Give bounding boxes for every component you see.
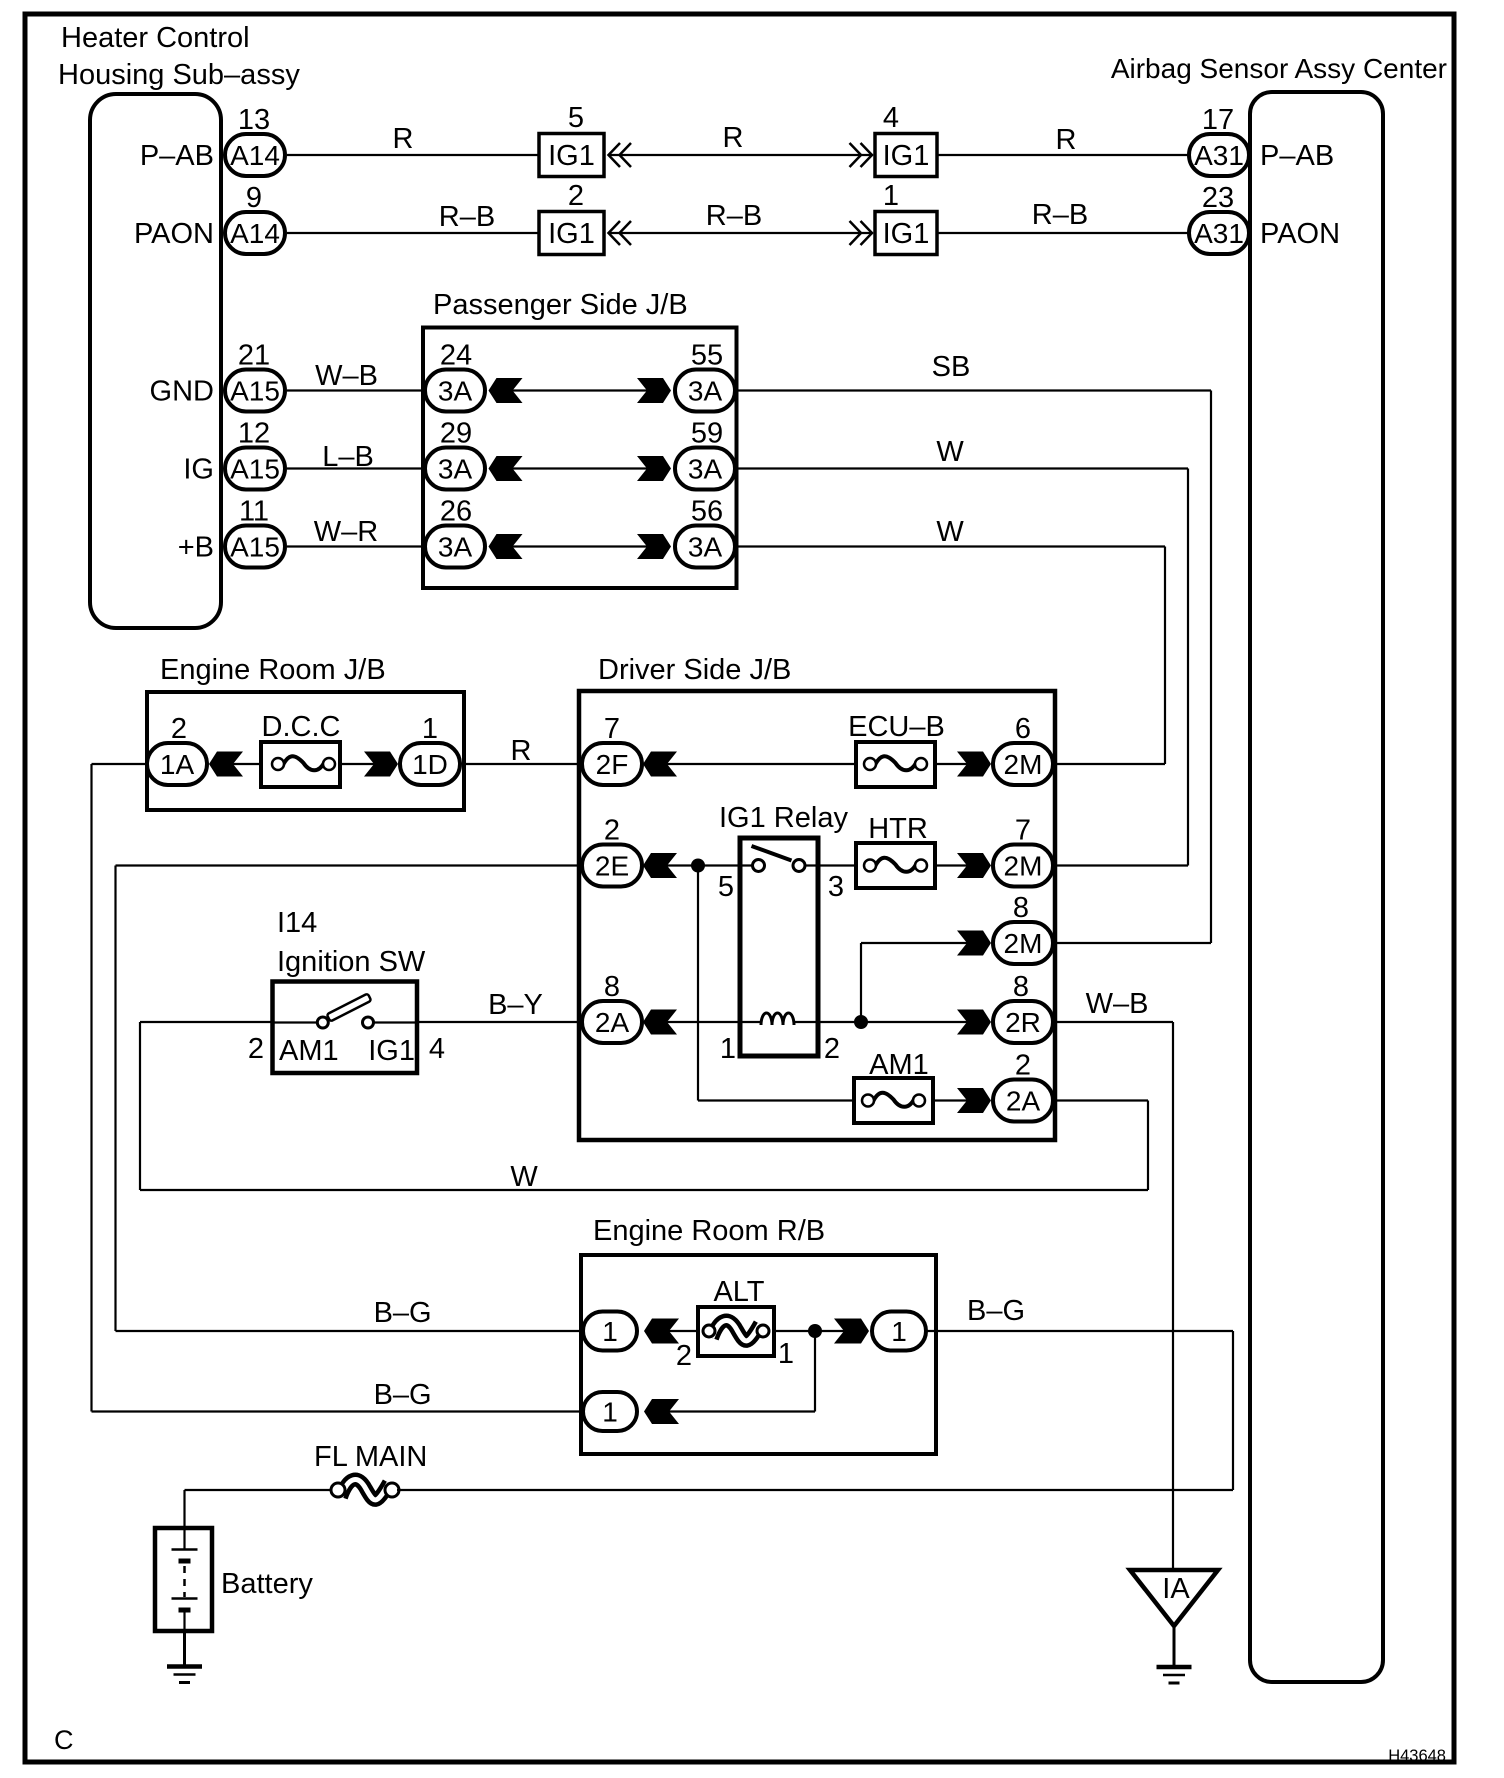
- svg-text:C: C: [54, 1725, 74, 1755]
- svg-text:Engine Room R/B: Engine Room R/B: [593, 1215, 825, 1247]
- wire B-G lower into R/B: [92, 1379, 585, 1412]
- component Passenger Side J/B box: [423, 289, 737, 588]
- component Airbag Sensor Assy Center: [1111, 53, 1447, 1682]
- wire 1-upper to ALT: [669, 1330, 698, 1332]
- fuse HTR: [856, 813, 935, 888]
- ignition contact IG1: [363, 1017, 418, 1067]
- connector A15 pin 21 (GND): [150, 340, 285, 412]
- fusible link FL MAIN: [314, 1441, 427, 1500]
- wire B-Y ignition to 2A-8: [417, 989, 580, 1065]
- inline connector chevrons right P-AB: [850, 143, 873, 167]
- svg-text:5: 5: [568, 102, 584, 134]
- svg-text:IG1: IG1: [883, 218, 930, 250]
- svg-text:ALT: ALT: [713, 1276, 764, 1308]
- svg-text:I14: I14: [277, 907, 317, 939]
- connector A31 pin 23 (PAON): [1189, 182, 1340, 254]
- wire battery positive stem: [183, 1490, 185, 1528]
- arrow into 2M-8: [957, 931, 991, 956]
- svg-text:3A: 3A: [438, 376, 473, 407]
- svg-text:3A: 3A: [688, 532, 723, 563]
- svg-text:B–G: B–G: [374, 1297, 432, 1329]
- svg-text:PAON: PAON: [134, 218, 214, 250]
- arrow into 2R: [957, 1010, 991, 1035]
- svg-text:2M: 2M: [1004, 749, 1043, 780]
- svg-text:W: W: [510, 1161, 538, 1193]
- svg-text:IA: IA: [1162, 1573, 1190, 1605]
- svg-text:8: 8: [1013, 971, 1029, 1003]
- svg-text:Engine Room J/B: Engine Room J/B: [160, 654, 386, 686]
- connector 2M pin 7: [993, 815, 1053, 887]
- wire SB from 3A-55 to 2M-8: [737, 351, 1212, 943]
- svg-text:SB: SB: [932, 351, 971, 383]
- wire IG row (L-B): [287, 441, 425, 473]
- svg-text:R: R: [393, 123, 414, 155]
- svg-text:A15: A15: [230, 532, 280, 563]
- svg-text:A31: A31: [1194, 218, 1244, 249]
- svg-text:A15: A15: [230, 454, 280, 485]
- connector 3A pin 24: [425, 340, 485, 412]
- wire into ignition AM1 side: [140, 1022, 273, 1065]
- wire W from 3A-59 to 2M-7: [737, 436, 1189, 866]
- component Heater Control Housing Sub-assy: [58, 22, 300, 628]
- wire 2A-8 to relay coil pin 1: [667, 1021, 761, 1023]
- svg-text:Airbag Sensor Assy Center: Airbag Sensor Assy Center: [1111, 53, 1447, 84]
- svg-text:29: 29: [440, 418, 472, 450]
- svg-text:24: 24: [440, 340, 472, 372]
- relay IG1 Relay box: [719, 802, 848, 1056]
- connector 3A pin 59: [675, 418, 735, 490]
- svg-text:3A: 3A: [688, 454, 723, 485]
- svg-text:1D: 1D: [412, 749, 448, 780]
- ignition contact AM1: [273, 1017, 339, 1067]
- svg-text:R–B: R–B: [439, 201, 495, 233]
- battery: [155, 1528, 313, 1631]
- svg-text:1: 1: [602, 1316, 618, 1347]
- svg-text:W–R: W–R: [314, 516, 378, 548]
- inline connector chevrons left P-AB: [609, 143, 632, 167]
- svg-text:59: 59: [691, 418, 723, 450]
- svg-text:Driver Side J/B: Driver Side J/B: [598, 654, 791, 686]
- junction connector IG1 pin 1: [875, 180, 937, 255]
- svg-text:2E: 2E: [595, 851, 629, 882]
- wire from 2E node down to AM1: [698, 866, 854, 1101]
- svg-text:Passenger Side J/B: Passenger Side J/B: [433, 289, 688, 321]
- svg-text:1: 1: [891, 1316, 907, 1347]
- wire 2M-8 to right riser: [1053, 942, 1211, 944]
- svg-text:2: 2: [604, 815, 620, 847]
- connector 1 right: [872, 1312, 926, 1351]
- wire from node B to 1A: [92, 763, 148, 765]
- arrow into 1D: [364, 752, 398, 777]
- inline connector chevrons right PAON: [850, 221, 873, 245]
- svg-text:1: 1: [883, 180, 899, 212]
- connector 2E pin 2: [582, 815, 642, 887]
- fuse AM1: [854, 1049, 933, 1123]
- drawing number H43648: [1388, 1747, 1446, 1765]
- svg-text:R: R: [511, 735, 532, 767]
- svg-text:23: 23: [1202, 182, 1234, 214]
- svg-text:B–G: B–G: [967, 1295, 1025, 1327]
- connector 1A pin 2: [147, 713, 207, 785]
- arrow into 3A pin 24: [489, 378, 523, 403]
- arrow into 2F: [643, 752, 677, 777]
- connector 2M pin 8: [993, 892, 1053, 964]
- svg-text:Heater Control: Heater Control: [61, 22, 250, 54]
- svg-text:2: 2: [1015, 1050, 1031, 1082]
- wire +B row (W-R): [287, 516, 425, 548]
- svg-text:56: 56: [691, 496, 723, 528]
- svg-text:3A: 3A: [438, 532, 473, 563]
- wire battery to FL MAIN: [185, 1489, 334, 1491]
- svg-text:13: 13: [238, 104, 270, 136]
- svg-text:7: 7: [1015, 815, 1031, 847]
- svg-text:H43648: H43648: [1388, 1747, 1446, 1765]
- svg-text:1: 1: [778, 1338, 794, 1370]
- wire riser to 2M-8: [861, 943, 967, 1022]
- svg-text:W–B: W–B: [1086, 988, 1149, 1020]
- svg-text:L–B: L–B: [322, 441, 374, 473]
- component Driver Side J/B box: [579, 654, 1055, 1140]
- wire HTR to 2M-7: [935, 864, 967, 866]
- svg-text:A14: A14: [230, 218, 280, 249]
- wire node A riser (2E row down to upper B-G): [114, 866, 116, 1332]
- svg-text:R: R: [1056, 124, 1077, 156]
- svg-text:2A: 2A: [1006, 1086, 1041, 1117]
- svg-text:GND: GND: [150, 376, 214, 408]
- svg-text:4: 4: [429, 1033, 445, 1065]
- wire inside J/B row GND: [513, 389, 648, 391]
- svg-text:2: 2: [248, 1033, 264, 1065]
- node junction at 2E branch: [691, 859, 705, 873]
- svg-text:W–B: W–B: [315, 360, 378, 392]
- connector A31 pin 17 (P-AB): [1189, 104, 1334, 176]
- svg-text:2: 2: [568, 180, 584, 212]
- wire FL MAIN to riser: [397, 1489, 1233, 1491]
- arrow into 2A-8: [643, 1010, 677, 1035]
- svg-text:1A: 1A: [160, 749, 195, 780]
- svg-text:R–B: R–B: [706, 200, 762, 232]
- wire PAON row left (R-B): [287, 201, 539, 233]
- fuse ECU-B: [848, 711, 945, 787]
- wire 2M-7 to right riser: [1053, 864, 1188, 866]
- connector 2A pin 8: [582, 971, 642, 1043]
- svg-text:IG1: IG1: [368, 1035, 415, 1067]
- wire relay coil pin 2 to 2R: [794, 1021, 967, 1023]
- junction connector IG1 pin 4: [875, 102, 937, 177]
- arrow into 1A: [209, 752, 243, 777]
- svg-text:8: 8: [1013, 892, 1029, 924]
- connector 2A pin 2: [993, 1050, 1053, 1122]
- svg-text:Battery: Battery: [221, 1568, 313, 1600]
- wire R from 1D to 2F: [464, 735, 580, 767]
- connector 2F pin 7: [582, 713, 642, 785]
- svg-text:3A: 3A: [688, 376, 723, 407]
- svg-text:HTR: HTR: [868, 813, 928, 845]
- arrow into 3A pin 55: [637, 378, 671, 403]
- svg-text:B–G: B–G: [374, 1379, 432, 1411]
- svg-text:7: 7: [604, 713, 620, 745]
- svg-text:2A: 2A: [595, 1007, 630, 1038]
- component Engine Room J/B box: [147, 654, 464, 810]
- relay switch blade: [752, 846, 792, 861]
- arrow into 2M-6: [957, 752, 991, 777]
- wire W from 3A-56 to 2M-6: [737, 516, 1166, 764]
- junction connector IG1 pin 2: [539, 180, 604, 255]
- svg-text:11: 11: [239, 496, 269, 528]
- svg-text:2: 2: [676, 1340, 692, 1372]
- wire P-AB row middle (R): [609, 122, 874, 155]
- svg-text:2: 2: [171, 713, 187, 745]
- wire AM1 to 2A-2: [933, 1099, 967, 1101]
- svg-text:1: 1: [602, 1397, 618, 1428]
- svg-text:Housing Sub–assy: Housing Sub–assy: [58, 59, 300, 91]
- svg-text:W: W: [936, 436, 964, 468]
- wire P-AB row left (R): [287, 123, 539, 155]
- relay contact pin 3: [793, 860, 844, 904]
- inline connector chevrons left PAON: [609, 221, 632, 245]
- connector 3A pin 56: [675, 496, 735, 568]
- svg-text:IG1: IG1: [548, 140, 595, 172]
- relay coil: [720, 1013, 840, 1065]
- svg-text:9: 9: [246, 182, 262, 214]
- battery ground: [167, 1631, 202, 1683]
- wire PAON row right (R-B): [937, 199, 1189, 233]
- svg-text:IG1: IG1: [548, 218, 595, 250]
- fuse D.C.C: [261, 711, 340, 787]
- svg-text:Ignition SW: Ignition SW: [277, 946, 426, 978]
- svg-text:FL MAIN: FL MAIN: [314, 1441, 427, 1473]
- connector A15 pin 12 (IG): [183, 418, 285, 490]
- svg-text:6: 6: [1015, 713, 1031, 745]
- connector 3A pin 29: [425, 418, 485, 490]
- svg-text:+B: +B: [178, 532, 214, 564]
- wire W-B from 2R to ground IA: [1053, 988, 1173, 1570]
- wire 2M-6 to right riser: [1053, 763, 1165, 765]
- wire PAON row middle (R-B): [609, 200, 874, 233]
- wire 2F to ECU-B fuse: [667, 763, 856, 765]
- svg-text:IG1 Relay: IG1 Relay: [719, 802, 848, 834]
- svg-text:W: W: [936, 516, 964, 548]
- svg-text:2: 2: [824, 1033, 840, 1065]
- svg-text:5: 5: [718, 871, 734, 903]
- svg-text:R: R: [723, 122, 744, 154]
- svg-text:B–Y: B–Y: [488, 989, 543, 1021]
- arrow into 3A pin 59: [637, 456, 671, 481]
- relay contact pin 5: [718, 860, 765, 904]
- ignition switch blade: [327, 993, 372, 1021]
- svg-text:1: 1: [422, 713, 438, 745]
- wire B-G upper into R/B: [116, 1297, 585, 1331]
- component Engine Room R/B box: [581, 1215, 936, 1454]
- junction connector IG1 pin 5: [539, 102, 604, 177]
- svg-text:AM1: AM1: [279, 1035, 339, 1067]
- svg-text:2M: 2M: [1004, 851, 1043, 882]
- svg-text:21: 21: [238, 340, 270, 372]
- svg-text:D.C.C: D.C.C: [262, 711, 341, 743]
- arrow into 2M-7: [957, 853, 991, 878]
- page marker C: [54, 1725, 74, 1755]
- arrow into 2E: [643, 853, 677, 878]
- connector 3A pin 55: [675, 340, 735, 412]
- svg-text:12: 12: [238, 418, 270, 450]
- connector 2M pin 6: [993, 713, 1053, 785]
- svg-text:A31: A31: [1194, 140, 1244, 171]
- wire inside J/B row IG: [513, 467, 648, 469]
- arrow into 3A pin 29: [489, 456, 523, 481]
- arrow into connector 1 lower: [644, 1399, 679, 1424]
- svg-text:A14: A14: [230, 140, 280, 171]
- svg-text:55: 55: [691, 340, 723, 372]
- svg-text:R–B: R–B: [1032, 199, 1088, 231]
- svg-text:PAON: PAON: [1260, 218, 1340, 250]
- wire relay contact 3 to HTR: [805, 864, 856, 866]
- connector 1D pin 1: [400, 713, 460, 785]
- ground point IA: [1130, 1570, 1218, 1626]
- connector 3A pin 26: [425, 496, 485, 568]
- svg-text:IG: IG: [183, 454, 214, 486]
- svg-text:P–AB: P–AB: [1260, 140, 1334, 172]
- svg-text:IG1: IG1: [883, 140, 930, 172]
- svg-text:2F: 2F: [596, 749, 629, 780]
- connector 1 lower: [583, 1392, 637, 1431]
- svg-text:3: 3: [828, 871, 844, 903]
- connector A14 pin 13 (P-AB): [140, 104, 285, 176]
- connector A15 pin 11 (+B): [178, 496, 285, 568]
- svg-text:ECU–B: ECU–B: [848, 711, 945, 743]
- svg-text:P–AB: P–AB: [140, 140, 214, 172]
- wire ECU-B to 2M-6: [935, 763, 967, 765]
- arrow into 3A pin 26: [489, 534, 523, 559]
- svg-text:8: 8: [604, 971, 620, 1003]
- arrow into 2A-2: [957, 1088, 991, 1113]
- connector 1 upper: [583, 1312, 692, 1373]
- svg-text:4: 4: [883, 102, 899, 134]
- wire P-AB row right (R): [937, 124, 1189, 156]
- svg-text:3A: 3A: [438, 454, 473, 485]
- wire ALT to connector 1 right: [774, 1330, 844, 1332]
- node junction coil output: [854, 1015, 868, 1029]
- wire D.C.C to 1D: [340, 763, 374, 765]
- component Ignition SW I14 box: [273, 907, 426, 1073]
- arrow into 3A pin 56: [637, 534, 671, 559]
- svg-text:17: 17: [1202, 104, 1234, 136]
- wire GND row (W-B): [287, 360, 425, 392]
- wire node B riser (1A row down to lower B-G): [90, 764, 92, 1412]
- IA ground symbol: [1157, 1626, 1192, 1683]
- wire 2E to relay contact 5: [667, 864, 752, 866]
- svg-text:26: 26: [440, 496, 472, 528]
- wire 1A to D.C.C: [233, 763, 261, 765]
- node junction ALT output: [808, 1324, 822, 1338]
- wire 1-lower up to ALT node: [669, 1331, 815, 1412]
- connector A14 pin 9 (PAON): [134, 182, 285, 254]
- wire inside J/B row +B: [513, 545, 648, 547]
- wire 2E row left out of J/B: [116, 864, 581, 866]
- fuse ALT fusible link: [698, 1276, 794, 1370]
- svg-text:A15: A15: [230, 376, 280, 407]
- wire W from 2A-2 down and around: [140, 1022, 1148, 1193]
- wire B-G from R/B to battery riser: [926, 1295, 1233, 1490]
- svg-text:AM1: AM1: [869, 1049, 929, 1081]
- svg-text:2M: 2M: [1004, 928, 1043, 959]
- svg-text:1: 1: [720, 1033, 736, 1065]
- arrow into connector 1 right: [834, 1319, 869, 1344]
- arrow into connector 1 upper: [644, 1319, 679, 1344]
- svg-text:2R: 2R: [1005, 1007, 1041, 1038]
- connector 2R pin 8: [993, 971, 1053, 1043]
